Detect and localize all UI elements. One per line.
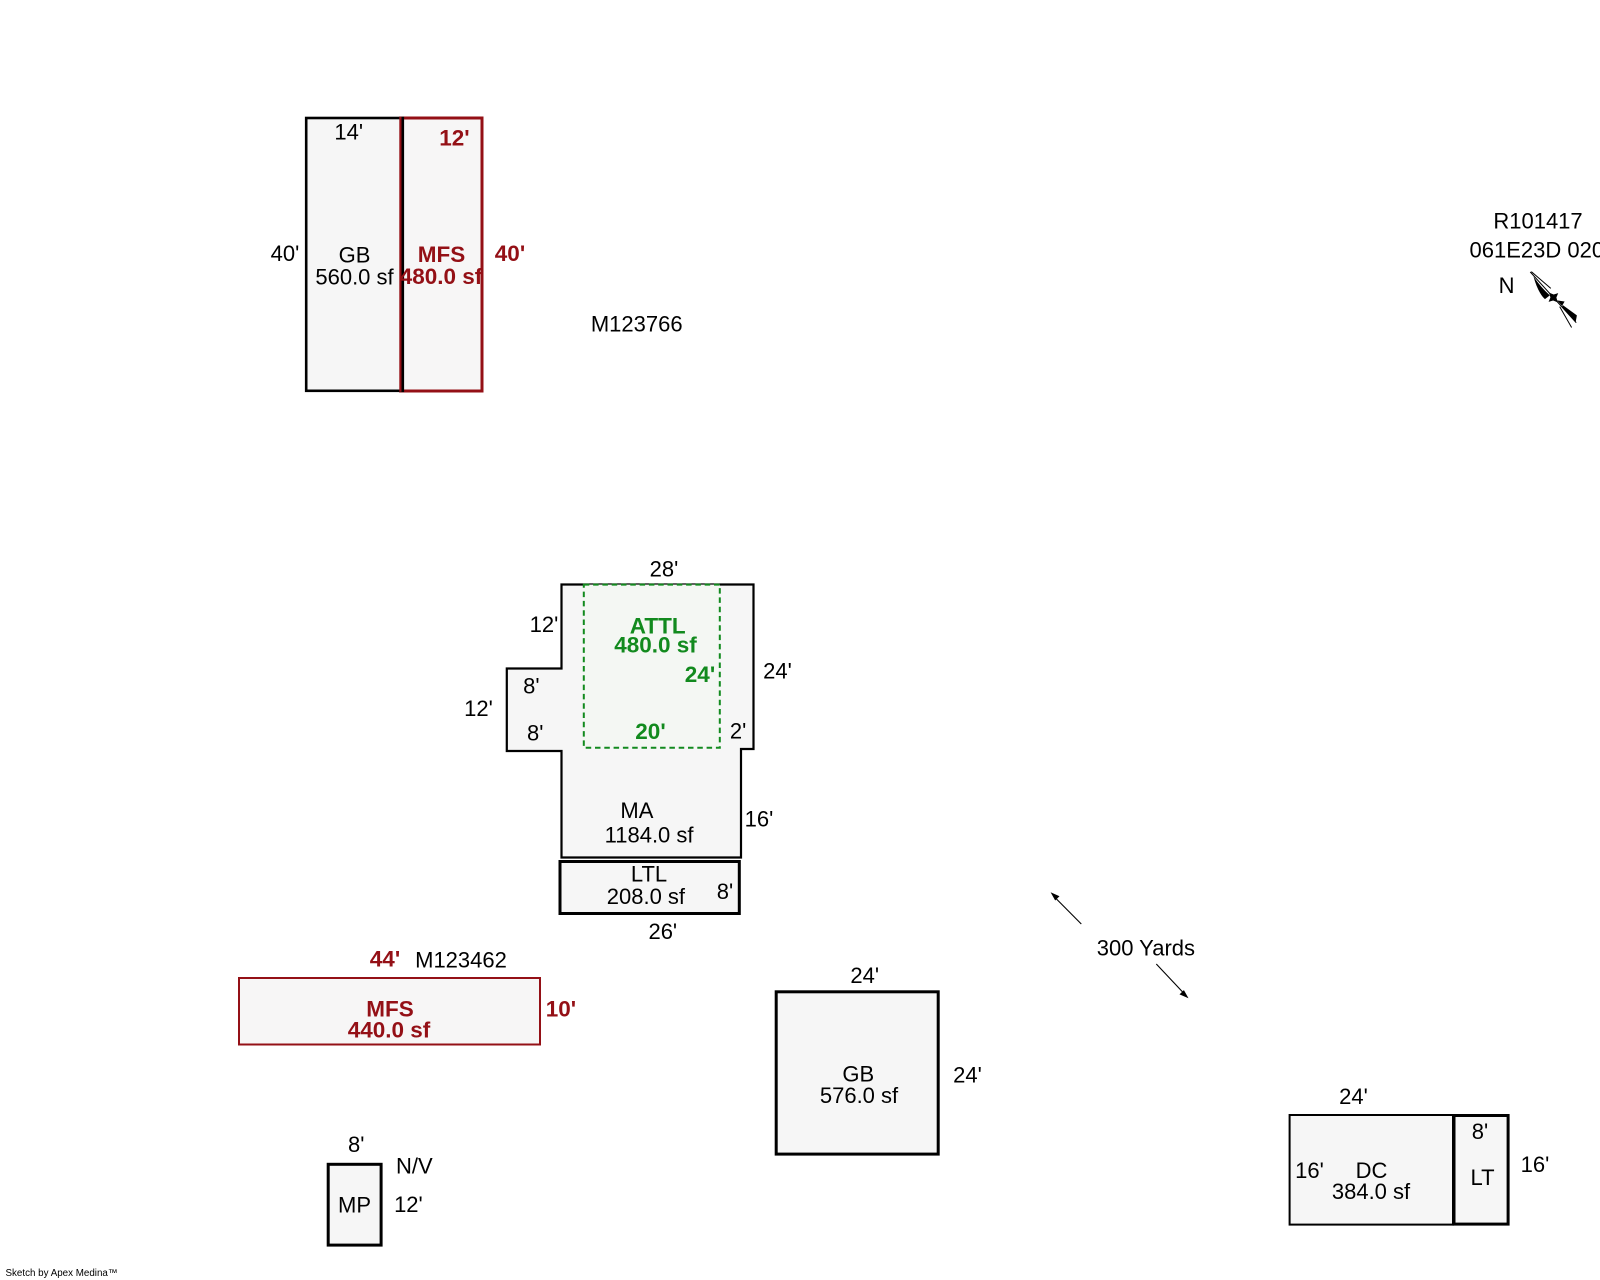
svg-text:24': 24' bbox=[850, 963, 879, 988]
area GB 560 (top-left, black rectangle) bbox=[306, 118, 403, 391]
svg-text:N/V: N/V bbox=[396, 1153, 433, 1178]
area MFS 440 rectangle bbox=[239, 978, 540, 1045]
north arrow compass needle bbox=[1525, 268, 1582, 329]
area DC 384 rectangle bbox=[1290, 1115, 1453, 1225]
arrowhead SE bbox=[1180, 990, 1189, 998]
svg-text:N: N bbox=[1499, 273, 1515, 298]
svg-text:300 Yards: 300 Yards bbox=[1097, 936, 1195, 961]
svg-text:10': 10' bbox=[546, 997, 576, 1022]
svg-text:16': 16' bbox=[745, 807, 774, 832]
svg-text:24': 24' bbox=[685, 662, 715, 687]
svg-text:LTL: LTL bbox=[631, 861, 667, 886]
svg-text:560.0 sf: 560.0 sf bbox=[315, 264, 394, 289]
svg-text:208.0 sf: 208.0 sf bbox=[607, 884, 686, 909]
svg-text:2': 2' bbox=[730, 718, 746, 743]
svg-text:20': 20' bbox=[635, 719, 665, 744]
svg-text:12': 12' bbox=[464, 696, 493, 721]
svg-text:8': 8' bbox=[717, 879, 733, 904]
svg-text:MA: MA bbox=[620, 798, 653, 823]
svg-text:12': 12' bbox=[530, 612, 559, 637]
svg-text:8': 8' bbox=[1472, 1119, 1488, 1144]
area GB 576 square bbox=[776, 992, 938, 1154]
svg-text:576.0 sf: 576.0 sf bbox=[820, 1083, 899, 1108]
svg-text:24': 24' bbox=[953, 1063, 982, 1088]
svg-text:8': 8' bbox=[348, 1132, 364, 1157]
svg-text:061E23D 02000: 061E23D 02000 bbox=[1470, 237, 1600, 262]
svg-text:12': 12' bbox=[439, 126, 469, 151]
svg-text:M123766: M123766 bbox=[591, 311, 683, 336]
svg-text:12': 12' bbox=[394, 1192, 423, 1217]
distance arrow SE (300 yards) bbox=[1156, 964, 1185, 995]
svg-text:28': 28' bbox=[650, 557, 679, 582]
svg-text:40': 40' bbox=[271, 241, 300, 266]
distance arrow NW (300 yards) bbox=[1054, 896, 1082, 924]
wire shared border red edge of MFS 480 bbox=[399, 117, 401, 392]
svg-text:24': 24' bbox=[763, 658, 792, 683]
svg-text:8': 8' bbox=[523, 674, 539, 699]
svg-text:R101417: R101417 bbox=[1493, 209, 1582, 234]
area MP rectangle bbox=[328, 1164, 381, 1245]
svg-text:44': 44' bbox=[370, 947, 400, 972]
svg-text:440.0 sf: 440.0 sf bbox=[348, 1018, 431, 1043]
svg-text:480.0 sf: 480.0 sf bbox=[400, 264, 483, 289]
area MA 1184 outline bbox=[507, 585, 754, 858]
area LTL 208 rectangle bbox=[560, 862, 739, 914]
svg-text:14': 14' bbox=[334, 119, 363, 144]
area LT rectangle bbox=[1454, 1116, 1508, 1225]
svg-text:1184.0 sf: 1184.0 sf bbox=[605, 823, 695, 848]
svg-text:384.0 sf: 384.0 sf bbox=[1332, 1179, 1411, 1204]
arrowhead NW bbox=[1051, 892, 1060, 900]
svg-text:8': 8' bbox=[527, 721, 543, 746]
area MFS 480 (top-left, dark red rectangle) bbox=[401, 118, 482, 391]
svg-text:16': 16' bbox=[1521, 1152, 1550, 1177]
area ATTL 480 green dashed rectangle bbox=[584, 585, 720, 748]
svg-text:MP: MP bbox=[338, 1193, 371, 1218]
svg-text:24': 24' bbox=[1339, 1084, 1368, 1109]
svg-text:LT: LT bbox=[1470, 1165, 1494, 1190]
svg-text:480.0 sf: 480.0 sf bbox=[614, 632, 697, 657]
svg-text:M123462: M123462 bbox=[415, 948, 507, 973]
svg-text:40': 40' bbox=[495, 241, 525, 266]
svg-text:Sketch by Apex Medina™: Sketch by Apex Medina™ bbox=[6, 1268, 118, 1279]
svg-text:26': 26' bbox=[648, 919, 677, 944]
svg-text:16': 16' bbox=[1295, 1158, 1324, 1183]
